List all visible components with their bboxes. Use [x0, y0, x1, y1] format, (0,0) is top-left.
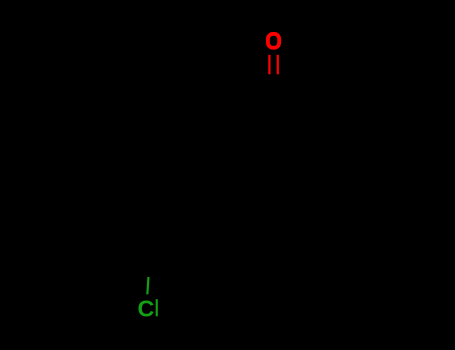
- svg-text:C: C: [138, 295, 155, 321]
